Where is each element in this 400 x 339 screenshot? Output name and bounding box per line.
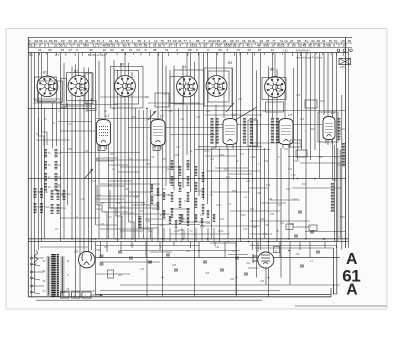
svg-text:L3: L3 xyxy=(232,113,236,117)
svg-text:R48: R48 xyxy=(252,227,257,229)
wire junctions xyxy=(60,178,62,180)
sheet bottom shadow xyxy=(295,305,387,307)
wire xyxy=(96,118,162,120)
svg-text:23: 23 xyxy=(290,39,294,43)
wire xyxy=(100,228,150,230)
wire xyxy=(252,53,254,239)
wire xyxy=(235,242,237,295)
capacitor C43 xyxy=(148,260,152,262)
svg-text:70: 70 xyxy=(334,39,338,43)
wire xyxy=(100,183,160,185)
capacitor C17 xyxy=(153,146,160,151)
resistor R66 xyxy=(169,216,171,224)
resistor R68 xyxy=(181,214,183,222)
svg-text:R35: R35 xyxy=(90,239,95,241)
capacitor C60 xyxy=(100,262,104,264)
wire xyxy=(117,70,119,241)
wire xyxy=(289,242,291,286)
wire xyxy=(336,246,338,295)
wire xyxy=(268,66,270,297)
wire xyxy=(148,102,200,104)
coil can S5b xyxy=(208,71,229,102)
wire xyxy=(339,150,341,239)
arrow xyxy=(91,294,103,296)
svg-text:R27: R27 xyxy=(296,254,301,256)
svg-text:R15: R15 xyxy=(140,211,145,213)
tuning arrow 2 xyxy=(148,111,156,120)
wire xyxy=(108,207,160,209)
svg-text:L4: L4 xyxy=(288,113,292,117)
svg-text:C40c: C40c xyxy=(336,165,342,167)
wire stub xyxy=(207,228,209,242)
wire xyxy=(120,230,143,232)
svg-text:18: 18 xyxy=(258,48,262,52)
svg-text:C62: C62 xyxy=(246,263,251,265)
coil R10a xyxy=(51,204,54,214)
wire xyxy=(91,98,93,250)
wire to socket xyxy=(124,53,126,76)
svg-text:C13: C13 xyxy=(163,94,168,96)
wire xyxy=(140,227,158,229)
svg-text:R12: R12 xyxy=(186,165,191,167)
wire xyxy=(227,148,229,239)
svg-text:B3: B3 xyxy=(120,63,124,67)
tube L2 xyxy=(151,114,165,150)
wire xyxy=(279,242,281,258)
wire stub xyxy=(181,228,183,242)
wire xyxy=(300,162,345,164)
wire xyxy=(60,53,62,242)
svg-text:C38b: C38b xyxy=(250,157,256,159)
wire xyxy=(333,285,335,295)
wire xyxy=(309,242,311,258)
frame right border xyxy=(345,37,347,248)
svg-text:C58: C58 xyxy=(290,224,295,226)
svg-text:R40: R40 xyxy=(108,185,113,187)
svg-text:R25b: R25b xyxy=(260,219,266,221)
capacitor C44 xyxy=(290,140,301,147)
tube L3 xyxy=(223,113,237,149)
wire xyxy=(83,67,85,253)
capacitor C50 xyxy=(244,272,248,274)
tube socket B4 xyxy=(177,65,198,97)
svg-text:11: 11 xyxy=(44,39,47,43)
wire xyxy=(150,110,152,239)
wire xyxy=(334,293,337,295)
svg-text:R45: R45 xyxy=(232,191,237,193)
strip tick marks xyxy=(28,43,30,45)
capacitor C68 xyxy=(316,250,320,252)
wire xyxy=(95,198,121,200)
tube L1 xyxy=(97,114,111,150)
grid cap wire xyxy=(235,107,257,120)
wire xyxy=(106,242,108,253)
terminal strip rule 4 xyxy=(28,52,348,54)
svg-text:C28: C28 xyxy=(166,169,171,171)
svg-text:3: 3 xyxy=(98,44,100,48)
wire xyxy=(95,195,140,197)
svg-text:48: 48 xyxy=(102,44,106,48)
wire jog xyxy=(151,118,155,128)
fuse xyxy=(34,250,38,265)
coil S10a xyxy=(34,203,37,213)
wire xyxy=(337,148,339,242)
wire xyxy=(210,242,236,244)
svg-text:C29b: C29b xyxy=(216,205,222,207)
wire xyxy=(28,238,348,240)
wire xyxy=(165,66,167,186)
frame corner wire xyxy=(330,288,332,297)
resistor R73 xyxy=(213,214,215,222)
wire xyxy=(186,105,188,155)
svg-text:C14: C14 xyxy=(115,239,120,241)
svg-text:48: 48 xyxy=(257,44,261,48)
svg-text:Bt P0–0 C23: Bt P0–0 C23 xyxy=(88,53,105,57)
svg-text:3: 3 xyxy=(338,44,340,48)
wire xyxy=(178,108,180,186)
svg-text:11: 11 xyxy=(271,48,274,52)
wire xyxy=(297,53,299,161)
svg-text:R41: R41 xyxy=(134,197,139,199)
wire xyxy=(132,204,158,206)
wire xyxy=(314,53,316,151)
resistor R46 xyxy=(179,198,182,208)
svg-text:29: 29 xyxy=(74,39,78,43)
svg-text:A: A xyxy=(346,251,357,268)
wire xyxy=(224,242,226,258)
mains transformer T1 core xyxy=(51,254,56,297)
svg-text:6: 6 xyxy=(219,44,221,48)
frame bottom border inner xyxy=(95,294,331,296)
svg-text:8: 8 xyxy=(145,48,147,52)
wire xyxy=(63,63,65,239)
wire xyxy=(120,63,122,239)
svg-text:54: 54 xyxy=(115,39,119,43)
svg-text:C42: C42 xyxy=(283,49,288,53)
svg-text:91: 91 xyxy=(252,39,256,43)
coil S5 xyxy=(44,149,47,158)
wire xyxy=(205,155,236,157)
svg-text:L2: L2 xyxy=(160,114,164,118)
svg-text:C55: C55 xyxy=(270,214,275,216)
wire xyxy=(182,68,184,188)
resistor R65 xyxy=(163,210,165,218)
svg-text:27: 27 xyxy=(69,48,73,52)
svg-text:R17: R17 xyxy=(226,177,231,179)
wire xyxy=(211,148,213,239)
svg-text:C32: C32 xyxy=(206,171,211,173)
coil R8a xyxy=(57,190,60,200)
svg-text:29: 29 xyxy=(77,44,81,48)
svg-text:C51: C51 xyxy=(284,149,289,151)
wire stub xyxy=(163,228,165,242)
svg-text:C10: C10 xyxy=(84,151,89,153)
svg-text:56: 56 xyxy=(59,44,63,48)
svg-text:5: 5 xyxy=(44,44,46,48)
wire xyxy=(33,98,62,100)
wire xyxy=(128,191,152,193)
svg-text:9: 9 xyxy=(118,44,120,48)
wire xyxy=(145,218,166,220)
wire xyxy=(333,248,335,294)
wire xyxy=(120,250,240,252)
wire xyxy=(173,66,175,190)
svg-text:R32: R32 xyxy=(334,157,339,159)
coil R4 xyxy=(55,161,58,170)
svg-text:63: 63 xyxy=(329,39,333,43)
wire xyxy=(250,142,300,144)
wire xyxy=(60,130,95,132)
svg-text:C30b: C30b xyxy=(256,193,262,195)
svg-text:82: 82 xyxy=(123,44,127,48)
svg-text:R18b: R18b xyxy=(180,219,186,221)
svg-text:C33b: C33b xyxy=(264,225,270,227)
wire xyxy=(36,139,70,141)
wire xyxy=(190,242,192,249)
capacitor C48 xyxy=(235,256,239,258)
svg-text:C15: C15 xyxy=(120,199,125,201)
svg-text:C25b: C25b xyxy=(128,213,134,215)
wire xyxy=(305,231,345,233)
left bus wire 2 xyxy=(34,53,36,293)
svg-text:6: 6 xyxy=(333,44,335,48)
wire xyxy=(260,53,262,251)
svg-text:C19: C19 xyxy=(128,159,133,161)
svg-text:C59: C59 xyxy=(96,249,101,252)
svg-text:4.65: 4.65 xyxy=(340,217,345,219)
svg-text:C63: C63 xyxy=(215,247,220,249)
transformer primary winding xyxy=(47,256,51,258)
svg-text:37: 37 xyxy=(168,44,172,48)
svg-text:57: 57 xyxy=(168,39,172,43)
svg-text:8: 8 xyxy=(196,48,198,52)
svg-text:0.7: 0.7 xyxy=(55,53,60,57)
wire xyxy=(33,102,62,104)
wire xyxy=(207,53,209,205)
wire xyxy=(118,171,140,173)
wire xyxy=(194,62,196,297)
resistor R60 xyxy=(151,184,153,192)
left bus wire xyxy=(30,53,32,298)
svg-text:24: 24 xyxy=(38,48,42,52)
wire xyxy=(143,110,145,239)
coil can S3 xyxy=(111,67,144,109)
wire jog xyxy=(179,230,185,239)
capacitor C64 xyxy=(274,247,280,253)
wire stub xyxy=(169,228,171,242)
capacitor C71 xyxy=(286,224,293,230)
svg-text:C40: C40 xyxy=(140,269,145,271)
wire xyxy=(284,53,286,119)
svg-text:R43: R43 xyxy=(160,225,165,227)
svg-text:14: 14 xyxy=(154,39,158,43)
wire xyxy=(100,185,125,187)
wire xyxy=(190,53,192,193)
svg-text:4: 4 xyxy=(189,39,191,43)
svg-text:R51: R51 xyxy=(220,155,225,157)
resistor R43 xyxy=(171,208,174,218)
svg-text:02: 02 xyxy=(69,39,73,43)
svg-text:C29: C29 xyxy=(160,215,165,217)
svg-text:C37: C37 xyxy=(262,111,267,113)
wire xyxy=(215,105,217,148)
svg-text:R13: R13 xyxy=(100,203,105,205)
wire xyxy=(104,53,106,119)
svg-text:L6: L6 xyxy=(74,250,78,254)
svg-text:Aanslutning Tonforst.: Aanslutning Tonforst. xyxy=(295,56,323,60)
tube socket B5 xyxy=(206,61,232,96)
svg-text:9: 9 xyxy=(144,39,146,43)
svg-text:08: 08 xyxy=(230,39,234,43)
svg-text:03: 03 xyxy=(137,48,141,52)
coil can S3c xyxy=(155,93,169,107)
wire xyxy=(198,146,262,148)
svg-text:C47b: C47b xyxy=(340,129,346,131)
svg-text:14: 14 xyxy=(284,39,288,43)
capacitor C70 xyxy=(309,225,317,231)
resistor R31 xyxy=(331,183,334,212)
svg-text:08: 08 xyxy=(233,44,237,48)
wire xyxy=(210,170,260,172)
svg-text:51: 51 xyxy=(29,44,33,48)
svg-text:R77: R77 xyxy=(240,154,245,156)
svg-text:C25: C25 xyxy=(180,119,185,121)
wire xyxy=(100,242,102,259)
svg-text:R24: R24 xyxy=(300,119,305,121)
svg-text:30: 30 xyxy=(121,48,125,52)
wire stub xyxy=(201,228,203,242)
wire xyxy=(40,246,88,248)
coil S10 xyxy=(210,118,213,144)
coil can S13b xyxy=(248,120,258,146)
svg-text:07: 07 xyxy=(70,44,74,48)
wire xyxy=(108,164,128,166)
wire xyxy=(95,245,200,247)
wire xyxy=(198,242,200,258)
svg-text:C39b: C39b xyxy=(240,215,246,217)
strip terminal circles xyxy=(337,49,340,52)
rectifier tube L6 xyxy=(74,250,95,268)
svg-text:80: 80 xyxy=(89,48,93,52)
svg-text:2M: 2M xyxy=(276,231,279,233)
wire xyxy=(71,67,73,239)
svg-text:C33: C33 xyxy=(238,99,243,101)
wire xyxy=(120,213,170,215)
svg-text:C23b: C23b xyxy=(124,189,130,191)
wire xyxy=(38,53,40,251)
svg-text:C39: C39 xyxy=(296,95,301,97)
wire xyxy=(255,247,334,249)
wire xyxy=(327,53,329,146)
svg-text:3: 3 xyxy=(242,44,244,48)
wire xyxy=(135,108,137,242)
capacitor C67b xyxy=(300,264,304,266)
wire xyxy=(288,156,345,158)
wire xyxy=(228,173,252,175)
svg-text:33: 33 xyxy=(322,39,326,43)
svg-text:69: 69 xyxy=(217,39,221,43)
wire to socket xyxy=(46,53,48,76)
svg-text:C34b: C34b xyxy=(218,231,224,233)
resistor R41 xyxy=(171,176,174,186)
svg-text:42: 42 xyxy=(311,39,315,43)
wire xyxy=(157,53,159,239)
resistor R50 xyxy=(187,192,190,202)
svg-text:81: 81 xyxy=(158,44,162,48)
svg-text:9: 9 xyxy=(39,44,41,48)
wire xyxy=(319,53,321,179)
wire xyxy=(170,233,230,235)
wire xyxy=(299,242,301,251)
svg-text:55: 55 xyxy=(348,39,352,43)
svg-text:B4: B4 xyxy=(182,65,186,69)
svg-text:77: 77 xyxy=(272,39,276,43)
coil can S16b xyxy=(318,112,338,142)
coil S9b xyxy=(40,188,43,198)
wire xyxy=(288,145,290,239)
wire xyxy=(95,257,340,259)
wire xyxy=(293,68,295,180)
svg-text:3: 3 xyxy=(102,39,104,43)
svg-text:C79: C79 xyxy=(322,239,327,241)
svg-text:R29: R29 xyxy=(172,265,177,267)
tube socket B2 xyxy=(68,70,89,97)
resistor R52 xyxy=(195,166,198,176)
wire xyxy=(214,242,216,247)
svg-text:98: 98 xyxy=(39,39,43,43)
wire xyxy=(95,242,97,295)
svg-text:16: 16 xyxy=(121,39,125,43)
coil S12 xyxy=(243,118,246,144)
svg-text:43: 43 xyxy=(178,39,182,43)
wire xyxy=(180,221,210,223)
svg-text:B2: B2 xyxy=(74,70,78,74)
wire xyxy=(276,69,278,242)
svg-text:C52: C52 xyxy=(288,169,293,171)
svg-text:B6: B6 xyxy=(270,68,274,72)
svg-text:C34: C34 xyxy=(200,215,205,217)
capacitor C7 xyxy=(98,146,105,151)
capacitor C59 xyxy=(100,254,104,256)
svg-text:R49: R49 xyxy=(206,223,211,225)
wire xyxy=(60,104,118,106)
capacitor C77 xyxy=(294,234,298,236)
wire xyxy=(145,242,147,258)
svg-text:57: 57 xyxy=(97,39,101,43)
svg-text:5: 5 xyxy=(227,48,229,52)
svg-text:R25: R25 xyxy=(302,184,307,186)
svg-text:R20: R20 xyxy=(266,185,271,187)
wire xyxy=(75,64,77,296)
resistor R72 xyxy=(207,210,209,218)
coil can S4b xyxy=(170,77,184,104)
transformer secondary winding xyxy=(61,256,65,258)
svg-text:9: 9 xyxy=(163,44,165,48)
wire xyxy=(120,166,180,168)
wire xyxy=(56,103,58,146)
wire xyxy=(250,220,310,222)
wire xyxy=(98,61,100,239)
coil can S2 xyxy=(67,73,93,101)
svg-text:R19: R19 xyxy=(200,227,205,229)
wire xyxy=(336,53,338,249)
wire xyxy=(41,53,43,242)
svg-text:81: 81 xyxy=(305,39,309,43)
wire jog xyxy=(57,184,61,186)
resistor R30 xyxy=(342,143,345,167)
wire xyxy=(96,160,114,162)
wire to socket xyxy=(274,53,276,76)
